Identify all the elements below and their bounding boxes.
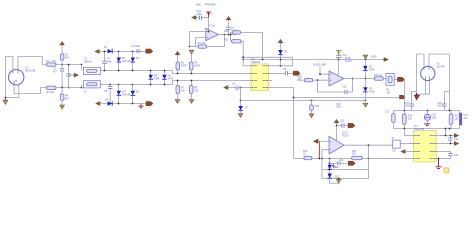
wire bottom pin B: [5, 84, 18, 97]
svg-text:100n: 100n: [437, 105, 443, 108]
svg-text:100n: 100n: [405, 105, 411, 108]
diode D5 vertical: [131, 85, 135, 104]
svg-text:R20: R20: [315, 105, 320, 108]
resistor R2 (top horizontal): [46, 63, 56, 66]
diode column above rail: supply flag: [278, 39, 283, 42]
ground arrow: [338, 178, 340, 180]
node bottom junction: [61, 87, 63, 89]
pins right: [436, 136, 441, 159]
op-amp IC1A: [206, 28, 219, 40]
right column blue cap: [460, 111, 462, 129]
resistor R7 column down: [176, 81, 180, 100]
svg-text:IC1A: IC1A: [210, 25, 216, 28]
svg-text:C21: C21: [454, 154, 459, 157]
svg-text:C17: C17: [385, 111, 390, 114]
net arrow into +in: [313, 139, 318, 143]
svg-text:1N4148: 1N4148: [122, 94, 131, 97]
capacitor C11 in feedback: [345, 90, 353, 94]
svg-text:ON: ON: [392, 150, 396, 153]
svg-text:C12: C12: [342, 86, 347, 89]
supply flag: [192, 16, 196, 20]
diode D2 vertical: [117, 52, 121, 71]
pin4L from audio rail: [413, 158, 414, 160]
svg-text:4k7: 4k7: [65, 98, 70, 101]
resistor R9 feedback: [198, 45, 207, 48]
wire to pin1R: [280, 60, 282, 66]
capacitor C4 column: [102, 52, 106, 71]
pin3L supply flag: [401, 150, 405, 154]
svg-text:LED1: LED1: [334, 166, 341, 169]
capacitor C11: [336, 55, 341, 59]
wire down from pin4L node: [240, 88, 242, 107]
capacitor C3 top rail end: [137, 49, 146, 53]
wire left vertical: [189, 32, 191, 47]
resistor R4 (vertical to flag): [60, 94, 64, 100]
diode D10: [239, 106, 243, 114]
svg-text:PREAMP: PREAMP: [205, 3, 216, 7]
diode D12: [363, 60, 367, 79]
rail X: [393, 128, 459, 130]
resistor R20 column under rail: [309, 100, 314, 118]
wire -in row: [297, 79, 304, 81]
wire bottom row: [56, 87, 82, 89]
ground flag arrow down: [60, 105, 65, 109]
wire rail B jog: [173, 81, 252, 85]
capacitor C2 column: [67, 65, 71, 88]
trimmer box: [383, 73, 394, 85]
wire output: [218, 34, 236, 36]
capacitor C7 column on output: [226, 21, 230, 35]
diode D13: [363, 79, 367, 101]
pin4L decoupling: [228, 86, 248, 90]
resistor R14: [304, 156, 312, 159]
junction: [5, 97, 7, 99]
capacitor C6: [196, 16, 208, 20]
wire: [56, 64, 82, 66]
svg-text:R10: R10: [224, 30, 229, 33]
svg-text:C3 100n: C3 100n: [131, 45, 141, 48]
svg-text:100R: 100R: [181, 65, 187, 68]
fuse F1: [83, 67, 100, 74]
dark wire +in down to rail: [318, 141, 320, 158]
resistor R8 column down: [189, 81, 193, 100]
fuse F2: [83, 81, 100, 88]
wire bottom rail: [100, 103, 146, 105]
supply flag star: [69, 74, 75, 76]
resistor R10 output horizontal: [233, 31, 241, 34]
bottom rail: [294, 158, 304, 160]
LED column: [328, 159, 340, 184]
svg-text:10u: 10u: [463, 117, 468, 120]
wire pin3R down long vertical: [272, 88, 294, 159]
wire rail A jog: [173, 71, 252, 74]
svg-text:NE5532: NE5532: [251, 61, 260, 64]
ground T center: [424, 123, 430, 126]
feedback up to output: [352, 79, 354, 93]
svg-text:C13: C13: [340, 120, 345, 123]
wire bias down to +in: [208, 18, 210, 32]
svg-text:100R: 100R: [194, 65, 200, 68]
wire output row: [344, 78, 366, 80]
net arrow right: [146, 49, 153, 53]
cap column x444.5: [442, 92, 449, 111]
svg-text:MIC: MIC: [197, 3, 202, 7]
left column blue cap: [392, 111, 395, 129]
speaker connector circle: [421, 66, 435, 80]
pin1L up to rail X: [405, 129, 410, 136]
wire top hook left: [5, 57, 12, 71]
op-amp IC1B: [329, 71, 344, 86]
wire rail V+: [243, 59, 384, 61]
svg-text:1N4148: 1N4148: [122, 60, 131, 63]
jumper pad yellow: [444, 168, 449, 173]
node: [118, 51, 120, 53]
diode column: supply flag top: [363, 55, 368, 59]
rail W: [393, 110, 459, 112]
supply flag +V: [60, 42, 65, 45]
supply flag: [175, 51, 180, 54]
wire: [280, 44, 282, 50]
diode D7 vertical between rails: [149, 71, 153, 85]
feedback loop lower: [322, 159, 369, 179]
svg-text:4148: 4148: [168, 78, 174, 81]
supply flag: [226, 16, 231, 19]
supply flag V+ column: [334, 119, 339, 122]
wire -in from rail: [322, 150, 329, 159]
resistor R3 (bottom horizontal): [46, 86, 56, 89]
output box component: [393, 140, 401, 148]
diode D4 vertical: [117, 85, 121, 104]
svg-text:R13 1k: R13 1k: [374, 74, 382, 77]
wire shield left vertical: [4, 57, 6, 98]
wire +in row: [190, 31, 206, 33]
net arrow right: [293, 71, 300, 75]
supply flag: [224, 86, 228, 90]
wire trimmer out with net arrow: [394, 78, 404, 80]
resistor R5 column up: [176, 56, 180, 74]
svg-text:LEVEL AMP: LEVEL AMP: [313, 64, 326, 67]
cap row mid: [329, 161, 349, 165]
svg-text:100u: 100u: [432, 117, 438, 120]
wire rail B: [100, 84, 172, 86]
resistor column x451: [449, 111, 453, 129]
net arrow right bottom: [146, 102, 153, 106]
bottom pins converge: [417, 80, 426, 94]
supply flag top-left: [95, 50, 99, 54]
svg-text:100n: 100n: [197, 13, 203, 16]
ground below IC3 right: [436, 159, 442, 169]
diode D3 vertical: [131, 52, 135, 71]
svg-text:8Ω SPK: 8Ω SPK: [437, 66, 446, 69]
pins right: [268, 66, 272, 88]
ground earth arrow: [3, 98, 8, 105]
supply flag V+ column: [336, 51, 342, 56]
feedback loop: [318, 80, 346, 92]
wire pin3R to rail97: [294, 97, 400, 99]
svg-text:TL072: TL072: [342, 135, 349, 138]
svg-text:4148: 4148: [369, 90, 375, 93]
top hooks: [417, 54, 425, 66]
svg-text:TDA7052: TDA7052: [414, 128, 425, 131]
ground symbol on bottom rail: [139, 104, 144, 108]
wire feedback vertical: [224, 35, 226, 47]
svg-text:250mA: 250mA: [84, 61, 92, 64]
svg-text:4148: 4148: [369, 68, 375, 71]
ground arrow dark: [238, 114, 243, 118]
ground flag arrow: [175, 100, 180, 104]
svg-text:4k7: 4k7: [65, 57, 70, 60]
cap between pin1R/pin2R: [448, 136, 452, 144]
svg-text:4u7: 4u7: [53, 70, 58, 73]
resistor R12: [304, 79, 312, 82]
wire +in column: [320, 67, 329, 75]
cap between pin3R/pin4R: [441, 152, 453, 159]
net arrow: [348, 161, 355, 165]
svg-text:C20: C20: [454, 138, 459, 141]
svg-text:100n: 100n: [107, 61, 113, 64]
junction F2: [81, 87, 83, 89]
right vertical down to rail W: [449, 54, 451, 111]
supply flag bottom-left: [96, 102, 100, 106]
feedback row: [190, 46, 199, 48]
capacitor C1 column: [60, 65, 64, 88]
diode D6: [108, 101, 113, 105]
net arrow: [348, 123, 355, 127]
cap column x411.5: [410, 92, 417, 111]
svg-text:4148: 4148: [154, 78, 160, 81]
capacitor C12: [336, 123, 348, 127]
resistor column x404.5: [403, 111, 407, 129]
wire top rail: [100, 51, 142, 53]
svg-text:TL072: TL072: [345, 60, 352, 63]
wire bottom pin A: [14, 84, 46, 93]
diode D9 vertical between rails: [162, 71, 166, 85]
connector J1: [9, 70, 24, 85]
diode D11: [278, 50, 282, 60]
node top junction: [61, 64, 63, 66]
diode D1: [108, 49, 113, 53]
pin2R cap chain: [272, 71, 293, 75]
wire -in: [196, 38, 206, 47]
center electrolytic cap: [424, 111, 431, 123]
capacitor C5 column: [108, 85, 112, 104]
resistor R15: [352, 156, 363, 159]
svg-text:R9 47k: R9 47k: [198, 42, 206, 45]
op-amp IC2A: [329, 136, 344, 154]
left shield vertical: [416, 54, 418, 94]
svg-text:100n: 100n: [336, 106, 342, 109]
wire rail 100.5: [241, 100, 366, 102]
pins left: [248, 66, 252, 88]
wire: [81, 85, 83, 88]
pin1R up to rail X and flag: [441, 129, 446, 136]
resistor R6 column up: [189, 54, 193, 74]
svg-text:GND: GND: [371, 56, 377, 59]
wire down to W rail: [404, 79, 406, 110]
junction F1: [81, 64, 83, 66]
svg-text:MIC/LINE: MIC/LINE: [25, 70, 36, 73]
wire elbow to pin1: [243, 57, 292, 66]
pins left: [406, 136, 414, 152]
wire top hook right: [18, 57, 46, 71]
wire rail A: [100, 70, 172, 72]
ground arrow dark: [414, 95, 419, 100]
IC2 body: [251, 64, 268, 91]
ground T bias: [206, 12, 211, 18]
wire box out down: [400, 143, 413, 145]
svg-text:C14: C14: [339, 159, 344, 162]
wire output to V+ rail drop: [241, 32, 263, 59]
svg-text:R11: R11: [224, 39, 229, 42]
wire output row: [344, 144, 393, 146]
resistor R1 (vertical to V+): [60, 54, 64, 60]
wire: [81, 65, 83, 71]
resistor R11 horizontal: [230, 32, 244, 57]
ground flag arrow: [189, 100, 194, 104]
pin2R flag: [441, 143, 454, 145]
svg-text:R3 10k: R3 10k: [47, 91, 55, 94]
resistor R13: [374, 77, 383, 80]
inner pin names: [416, 136, 433, 159]
